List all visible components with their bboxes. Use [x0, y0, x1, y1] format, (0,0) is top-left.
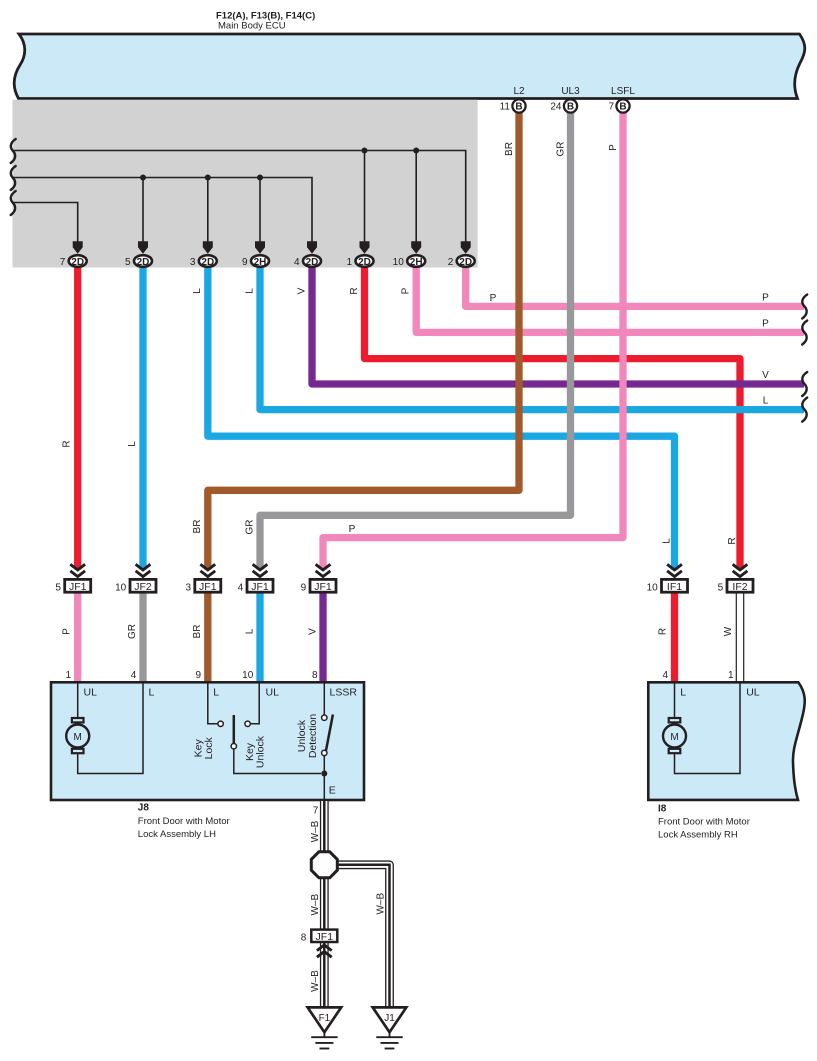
svg-text:2D: 2D — [201, 257, 214, 268]
svg-text:M: M — [670, 732, 678, 743]
junction connector 10 JF2 — [115, 564, 156, 593]
svg-text:9: 9 — [242, 257, 248, 268]
off-page squiggle right V — [802, 372, 807, 396]
svg-text:4: 4 — [662, 670, 668, 681]
svg-text:JF2: JF2 — [134, 581, 152, 593]
svg-text:I8: I8 — [658, 804, 667, 815]
svg-text:W–B: W–B — [310, 820, 321, 842]
svg-text:M: M — [74, 732, 82, 743]
ECU terminal UL3 pin 24 — [550, 86, 580, 113]
svg-text:P: P — [62, 628, 73, 635]
svg-text:V: V — [762, 370, 769, 381]
svg-text:Detection: Detection — [307, 714, 319, 759]
svg-text:UL: UL — [266, 687, 280, 699]
svg-text:W–B: W–B — [375, 893, 386, 915]
svg-text:LSFL: LSFL — [611, 86, 635, 97]
svg-text:UL: UL — [746, 687, 760, 699]
svg-text:L: L — [213, 687, 219, 699]
svg-text:10: 10 — [242, 670, 254, 681]
W-B wire branch from noise filter to J1 ground — [337, 865, 390, 1008]
J8 key unlock switch — [245, 684, 259, 727]
junction connector 4 JF1 — [238, 564, 273, 593]
svg-text:Main Body ECU: Main Body ECU — [218, 21, 286, 32]
arrow into 10(2H) — [411, 241, 421, 254]
wire L from 5(2D) to 10 JF2 — [139, 267, 146, 570]
svg-text:1: 1 — [65, 670, 71, 681]
svg-text:2D: 2D — [358, 257, 371, 268]
svg-text:L: L — [149, 687, 155, 699]
svg-text:P: P — [762, 318, 769, 329]
Main Body ECU block — [14, 34, 805, 99]
arrow into 7(2D) — [73, 241, 83, 254]
svg-text:3: 3 — [190, 257, 196, 268]
arrow into 9(2H) — [255, 241, 265, 254]
off-page squiggle left line 3 — [11, 191, 16, 215]
arrow into 5(2D) — [138, 241, 148, 254]
svg-text:IF2: IF2 — [732, 581, 747, 593]
wire branch to 3(2D) — [207, 178, 209, 244]
svg-text:7: 7 — [313, 806, 319, 817]
svg-text:L2: L2 — [513, 86, 525, 97]
svg-text:5: 5 — [125, 257, 131, 268]
off-page squiggle right P (upper) — [802, 295, 807, 319]
svg-text:V: V — [308, 628, 319, 635]
svg-text:BR: BR — [192, 520, 203, 534]
I8 wire motor to pin1 — [675, 684, 741, 774]
arrow into 2(2D) — [461, 241, 471, 254]
junction dot line1 at 10(2H) — [413, 148, 419, 154]
svg-text:B: B — [515, 102, 522, 113]
svg-text:BR: BR — [192, 625, 203, 639]
svg-text:2H: 2H — [254, 257, 267, 268]
svg-text:L: L — [244, 288, 255, 294]
junction dot line2 at 3(2D) — [205, 175, 211, 181]
junction connector 9 JF1 — [301, 564, 336, 593]
svg-text:E: E — [329, 785, 336, 797]
svg-text:R: R — [658, 628, 669, 635]
svg-text:5: 5 — [55, 582, 61, 593]
svg-text:2H: 2H — [410, 257, 423, 268]
ECU terminal L2 pin 11 — [500, 86, 526, 113]
wire P from 10(2H) to off-page right — [416, 267, 804, 332]
connector panel (gray) — [13, 100, 478, 268]
wire W from 5 IF2 to I8 pin 1 — [736, 593, 745, 682]
svg-text:W: W — [723, 626, 734, 636]
svg-text:8: 8 — [312, 670, 318, 681]
svg-text:JF1: JF1 — [251, 581, 269, 593]
svg-text:10: 10 — [115, 582, 127, 593]
wire branch to 9(2H) — [259, 178, 261, 244]
svg-text:11: 11 — [500, 102, 511, 113]
svg-text:4: 4 — [131, 670, 137, 681]
svg-text:B: B — [619, 102, 626, 113]
off-page squiggle right P (lower) — [802, 321, 807, 345]
ground J1 — [373, 1007, 407, 1048]
W-B wire from J8 pin 7 (E) to F1 ground — [320, 801, 329, 1008]
wire GR from ECU UL3 to 4 JF1 — [260, 112, 571, 570]
svg-text:24: 24 — [550, 102, 562, 113]
junction connector 3 JF1 — [185, 564, 220, 593]
svg-text:P: P — [401, 287, 412, 294]
motor M (I8) — [663, 718, 686, 753]
svg-text:UL: UL — [84, 687, 98, 699]
wire R from 7(2D) to 5 JF1 — [74, 267, 81, 570]
ground F1 — [308, 1007, 342, 1048]
svg-text:7: 7 — [60, 257, 66, 268]
svg-text:10: 10 — [393, 257, 405, 268]
svg-text:W–B: W–B — [310, 894, 321, 916]
wire BR from ECU L2 to 3 JF1 — [208, 112, 519, 570]
wire P from 2(2D) to off-page right — [466, 267, 804, 306]
off-page squiggle left line 1 — [11, 139, 16, 163]
svg-text:B: B — [567, 102, 574, 113]
svg-text:J8: J8 — [138, 803, 150, 814]
connector 4 (2D) — [294, 255, 321, 268]
svg-text:2D: 2D — [459, 257, 472, 268]
svg-text:L: L — [192, 288, 203, 294]
svg-text:R: R — [349, 287, 360, 294]
svg-text:LSSR: LSSR — [330, 687, 358, 699]
svg-text:2: 2 — [448, 257, 454, 268]
motor M (J8) — [66, 718, 89, 753]
J8 key lock switch — [208, 684, 321, 774]
J8 internal junction dot — [321, 771, 327, 777]
I8 Front Door with Motor Lock Assembly RH (box) — [648, 682, 804, 800]
svg-text:7: 7 — [608, 102, 614, 113]
svg-text:2D: 2D — [137, 257, 150, 268]
svg-text:Lock Assembly RH: Lock Assembly RH — [658, 830, 738, 841]
wire panel line 3 to 7(2D) — [13, 203, 78, 244]
junction dot line1 at 1(2D) — [362, 148, 368, 154]
connector 3 (2D) — [190, 255, 217, 268]
svg-text:JF1: JF1 — [316, 931, 334, 943]
svg-text:9: 9 — [196, 670, 202, 681]
J8 wire pin1 to motor — [77, 684, 79, 719]
svg-text:F1: F1 — [319, 1013, 331, 1024]
svg-text:GR: GR — [244, 520, 255, 535]
svg-text:J1: J1 — [384, 1013, 395, 1024]
wire P from 5 JF1 to J8 pin 1 — [74, 593, 81, 682]
wire branch to 1(2D) — [364, 151, 366, 244]
svg-text:L: L — [662, 538, 673, 544]
svg-text:L: L — [127, 441, 138, 447]
svg-text:Lock Assembly LH: Lock Assembly LH — [138, 829, 216, 840]
I8 wire pin4 to motor — [674, 684, 676, 719]
svg-text:2D: 2D — [306, 257, 319, 268]
svg-text:V: V — [296, 287, 307, 294]
junction connector 8 JF1 (bottom) — [301, 930, 338, 958]
svg-text:JF1: JF1 — [314, 581, 332, 593]
svg-text:1: 1 — [728, 670, 734, 681]
wire V from 9 JF1 to J8 pin 8 — [319, 593, 326, 682]
svg-text:JF1: JF1 — [199, 581, 217, 593]
svg-text:P: P — [608, 144, 619, 151]
connector 7 (2D) — [60, 255, 87, 268]
wire panel line 2 to 4(2D) — [13, 178, 312, 244]
wire V from 4(2D) to off-page right — [312, 267, 804, 384]
svg-text:P: P — [349, 524, 356, 535]
arrow into 1(2D) — [360, 241, 370, 254]
svg-text:P: P — [490, 293, 497, 304]
junction connector 5 JF1 — [55, 564, 90, 593]
connector 10 (2H) — [393, 255, 426, 268]
svg-text:UL3: UL3 — [561, 86, 580, 97]
svg-text:Front Door with Motor: Front Door with Motor — [138, 816, 230, 827]
svg-text:L: L — [763, 396, 769, 407]
ECU terminal LSFL pin 7 — [608, 86, 635, 113]
off-page squiggle left line 2 — [11, 166, 16, 190]
J8 Front Door with Motor Lock Assembly LH (box) — [51, 682, 364, 800]
arrow into 4(2D) — [307, 241, 317, 254]
svg-text:2D: 2D — [71, 257, 84, 268]
svg-text:Lock: Lock — [203, 736, 215, 759]
J8 wire motor to pin4 — [78, 684, 143, 774]
svg-text:8: 8 — [301, 933, 307, 944]
svg-text:R: R — [727, 537, 738, 544]
wire L from 3(2D) to 10 IF1 — [208, 267, 675, 570]
svg-text:JF1: JF1 — [69, 581, 87, 593]
wire panel line 1 to 2(2D) — [13, 151, 466, 244]
svg-text:BR: BR — [504, 142, 515, 156]
arrow into 3(2D) — [203, 241, 213, 254]
wire P from ECU LSFL to 9 JF1 — [323, 112, 623, 570]
connector 9 (2H) — [242, 255, 269, 268]
svg-text:1: 1 — [347, 257, 353, 268]
junction dot line2 at 5(2D) — [140, 175, 146, 181]
connector 2 (2D) — [448, 255, 475, 268]
junction dot line2 at 9(2H) — [257, 175, 263, 181]
svg-text:GR: GR — [556, 142, 567, 157]
svg-text:5: 5 — [718, 582, 724, 593]
wire L from 9(2H) to off-page right — [260, 267, 804, 410]
svg-text:R: R — [62, 440, 73, 447]
svg-text:L: L — [244, 628, 255, 634]
wire L from 4 JF1 to J8 pin 10 — [256, 593, 263, 682]
wire branch to 5(2D) — [142, 178, 144, 244]
svg-text:Front Door with Motor: Front Door with Motor — [658, 817, 750, 828]
J8 unlock detection switch — [322, 684, 333, 801]
off-page squiggle right L — [802, 398, 807, 422]
wire branch to 10(2H) — [415, 151, 417, 244]
svg-text:4: 4 — [294, 257, 300, 268]
wire R from 10 IF1 to I8 pin 4 — [671, 593, 678, 682]
svg-text:P: P — [762, 292, 769, 303]
wire BR from 3 JF1 to J8 pin 9 — [204, 593, 211, 682]
connector 1 (2D) — [347, 255, 374, 268]
svg-text:Unlock: Unlock — [255, 735, 267, 768]
wire GR from 10 JF2 to J8 pin 4 — [139, 593, 146, 682]
wire R from 1(2D) to 5 IF2 — [365, 267, 741, 570]
svg-text:L: L — [680, 687, 686, 699]
connector 5 (2D) — [125, 255, 152, 268]
junction connector 10 IF1 — [647, 564, 688, 593]
noise filter (octagon) — [311, 852, 337, 878]
junction connector 5 IF2 — [718, 564, 753, 593]
svg-text:4: 4 — [238, 582, 244, 593]
svg-text:GR: GR — [127, 624, 138, 639]
svg-text:3: 3 — [185, 582, 191, 593]
svg-text:10: 10 — [647, 582, 659, 593]
svg-text:IF1: IF1 — [667, 581, 682, 593]
svg-text:9: 9 — [301, 582, 307, 593]
svg-text:W–B: W–B — [310, 970, 321, 992]
